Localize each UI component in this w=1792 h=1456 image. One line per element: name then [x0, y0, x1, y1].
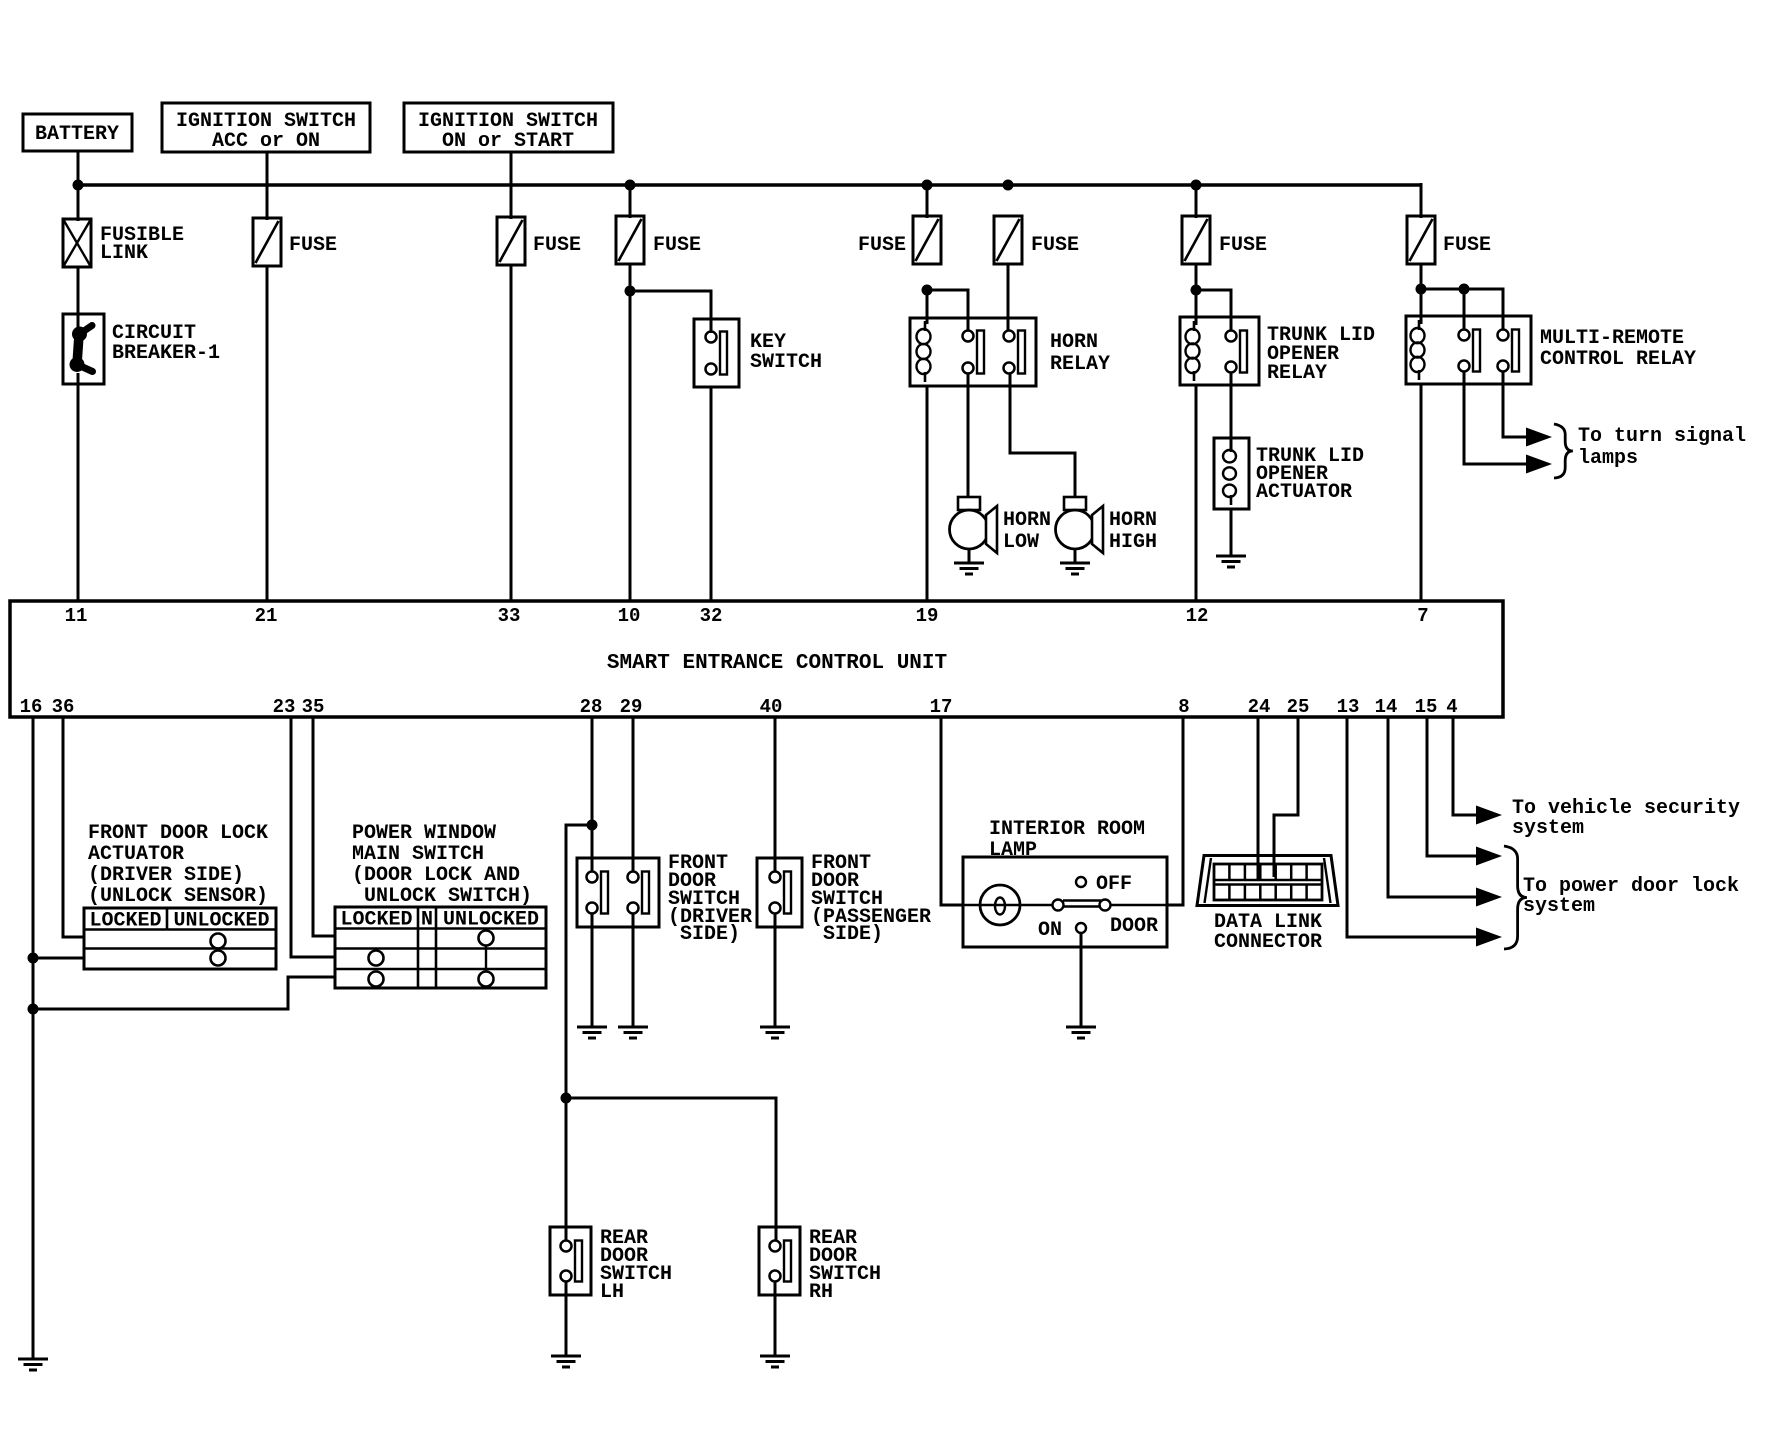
- horn relay box: [910, 318, 1036, 386]
- front door switch passenger contact: [770, 872, 781, 883]
- svg-text:25: 25: [1287, 696, 1310, 718]
- svg-text:RH: RH: [809, 1281, 833, 1304]
- svg-text:32: 32: [700, 605, 723, 627]
- wire junction to horn relay contact 1: [927, 290, 968, 331]
- svg-text:FUSE: FUSE: [653, 234, 701, 257]
- horn relay contact 2: [1004, 331, 1015, 342]
- fuse F-HORN: [994, 216, 1022, 264]
- junction pin28 rear-door branch: [587, 820, 598, 831]
- front door lock actuator table: [84, 908, 276, 969]
- junction fuse12 branch: [1191, 285, 1202, 296]
- wire to rear door switch LH: [565, 1098, 568, 1241]
- svg-text:8: 8: [1178, 696, 1189, 718]
- wire multi-remote coil to pin 7: [1420, 384, 1423, 601]
- svg-text:(DRIVER SIDE): (DRIVER SIDE): [88, 864, 244, 887]
- rear door switch LH contact: [561, 1241, 572, 1252]
- svg-text:10: 10: [618, 605, 641, 627]
- wire branch to rear door switches: [566, 825, 592, 1098]
- horn relay contact 1: [963, 331, 974, 342]
- rear door switch LH box: [550, 1227, 591, 1295]
- rear door switch RH box: [759, 1227, 800, 1295]
- ground rear door switch LH: [565, 1281, 568, 1356]
- svg-text:ACC or ON: ACC or ON: [212, 130, 320, 153]
- wire pin 29 to front door switch driver: [632, 717, 635, 872]
- svg-text:21: 21: [255, 605, 278, 627]
- wire pin 36 to actuator table row1: [63, 717, 85, 937]
- svg-text:OFF: OFF: [1096, 873, 1132, 896]
- svg-text:FUSE: FUSE: [1031, 234, 1079, 257]
- svg-text:MAIN SWITCH: MAIN SWITCH: [352, 843, 484, 866]
- svg-text:POWER WINDOW: POWER WINDOW: [352, 822, 496, 845]
- ignition switch ACC or ON box: [162, 103, 370, 152]
- lamp switch ON position: [1076, 923, 1086, 933]
- wire ON or START to fuse: [510, 152, 513, 219]
- wire pin 16 down to ground: [32, 717, 35, 1359]
- wire junction to actuator table row2: [33, 957, 85, 960]
- svg-text:36: 36: [52, 696, 75, 718]
- interior room lamp box: [963, 857, 1167, 947]
- wire to rear door switch RH: [566, 1098, 776, 1241]
- wire bus to fuse: [629, 185, 632, 218]
- svg-text:SIDE): SIDE): [680, 923, 740, 946]
- junction pin16 bottom link: [28, 1004, 39, 1015]
- svg-text:BATTERY: BATTERY: [35, 123, 119, 146]
- data link connector body: [1197, 856, 1338, 906]
- svg-text:(DOOR LOCK AND: (DOOR LOCK AND: [352, 864, 520, 887]
- main battery bus: [78, 183, 1421, 187]
- junction bus at fuse 19: [922, 180, 933, 191]
- wire contact1 to horn low: [967, 373, 970, 498]
- ground front door switch driver contact2: [632, 913, 635, 1027]
- svg-text:LOCKED: LOCKED: [340, 909, 412, 932]
- svg-text:HORN: HORN: [1109, 509, 1157, 532]
- multi-remote relay coil: [1411, 328, 1425, 343]
- svg-text:FUSE: FUSE: [533, 234, 581, 257]
- ground horn high: [1074, 549, 1077, 563]
- trunk lid opener actuator: [1214, 438, 1249, 509]
- wire trunk relay contact to actuator: [1230, 372, 1233, 450]
- wire pin 23 to PW table row2: [291, 717, 336, 957]
- svg-text:17: 17: [930, 696, 953, 718]
- wire branch to key switch: [630, 291, 711, 333]
- ground interior lamp ON: [1080, 933, 1083, 1027]
- svg-text:N: N: [421, 909, 433, 932]
- brace power door lock: [1504, 846, 1527, 949]
- junction bus at fuse 12: [1191, 180, 1202, 191]
- svg-text:7: 7: [1417, 605, 1428, 627]
- wire pin 35 to PW table row1: [313, 717, 336, 936]
- svg-text:FRONT DOOR LOCK: FRONT DOOR LOCK: [88, 822, 268, 845]
- svg-text:SWITCH: SWITCH: [750, 351, 822, 374]
- circuit breaker CB-1: [63, 314, 104, 384]
- trunk relay coil: [1186, 329, 1200, 344]
- key switch: [694, 319, 739, 387]
- junction multi-remote coil: [1416, 284, 1427, 295]
- svg-text:To turn signal: To turn signal: [1578, 425, 1746, 448]
- svg-text:RELAY: RELAY: [1267, 362, 1327, 385]
- svg-text:16: 16: [20, 696, 43, 718]
- trunk relay contact: [1226, 331, 1237, 342]
- junction pin16 to actuator row2: [28, 953, 39, 964]
- svg-text:HORN: HORN: [1003, 509, 1051, 532]
- svg-text:lamps: lamps: [1578, 447, 1638, 470]
- wire horn relay coil to pin 19: [926, 386, 929, 601]
- lamp switch: [1053, 900, 1064, 911]
- svg-text:40: 40: [760, 696, 783, 718]
- svg-text:FUSE: FUSE: [1219, 234, 1267, 257]
- ground pin 16 wire: [18, 1358, 48, 1361]
- svg-text:CONNECTOR: CONNECTOR: [1214, 931, 1322, 954]
- fuse F-19: [913, 216, 941, 264]
- wire fuse7 down: [1420, 264, 1423, 324]
- svg-text:system: system: [1512, 817, 1584, 840]
- wire PW table row3 to pin16 wire: [33, 977, 336, 1009]
- wire junction to trunk relay contact: [1196, 290, 1231, 331]
- svg-text:4: 4: [1446, 696, 1457, 718]
- svg-text:ACTUATOR: ACTUATOR: [1256, 481, 1352, 504]
- svg-text:(UNLOCK SENSOR): (UNLOCK SENSOR): [88, 885, 268, 908]
- svg-text:DOOR: DOOR: [1110, 915, 1158, 938]
- fuse F-IGN: [497, 217, 525, 265]
- wire junction to contacts: [1421, 289, 1503, 330]
- wire ACC to fuse: [266, 152, 269, 220]
- svg-text:SMART ENTRANCE CONTROL UNIT: SMART ENTRANCE CONTROL UNIT: [607, 652, 947, 675]
- wire pin 40 to front door switch passenger: [774, 717, 777, 872]
- svg-text:FUSE: FUSE: [1443, 234, 1491, 257]
- svg-text:11: 11: [65, 605, 88, 627]
- junction fuse19 branch: [922, 285, 933, 296]
- lamp switch OFF position: [1076, 877, 1086, 887]
- junction rear door switches: [561, 1093, 572, 1104]
- multi-remote relay contact 2: [1498, 330, 1509, 341]
- wire horn fuse to contact 2: [1007, 264, 1010, 331]
- svg-text:ON or START: ON or START: [442, 130, 574, 153]
- wire fuse to pin 21: [266, 266, 269, 601]
- lamp bulb: [963, 904, 1053, 907]
- PW switch unlocked contacts: [479, 931, 494, 946]
- trunk lid opener relay box: [1180, 317, 1259, 385]
- wire pin 4 to vehicle security arrow: [1453, 717, 1478, 815]
- wire key switch to pin 32: [710, 387, 713, 601]
- svg-text:23: 23: [273, 696, 296, 718]
- horn low symbol: [958, 497, 980, 510]
- svg-text:LINK: LINK: [100, 242, 148, 265]
- front door switch passenger box: [757, 858, 802, 927]
- svg-text:RELAY: RELAY: [1050, 353, 1110, 376]
- junction multi-remote contact 1: [1459, 284, 1470, 295]
- svg-text:system: system: [1523, 895, 1595, 918]
- wire fuse to trunk relay: [1195, 264, 1198, 325]
- wire pin 17 to interior lamp: [941, 717, 963, 905]
- fuse F-12: [1182, 216, 1210, 264]
- rear door switch RH contact: [770, 1241, 781, 1252]
- ground trunk actuator: [1230, 509, 1233, 556]
- battery box: [23, 114, 132, 151]
- wire pin 13 to power door lock arrow 3: [1347, 717, 1478, 937]
- ground front door switch passenger: [774, 913, 777, 1027]
- wire pin 15 to power door lock arrow 1: [1427, 717, 1478, 856]
- front door switch driver contact 1: [587, 872, 598, 883]
- svg-text:HIGH: HIGH: [1109, 531, 1157, 554]
- svg-text:INTERIOR ROOM: INTERIOR ROOM: [989, 818, 1145, 841]
- svg-text:MULTI-REMOTE: MULTI-REMOTE: [1540, 327, 1684, 350]
- fuse F-7: [1407, 216, 1435, 264]
- ground front door switch driver contact1: [591, 913, 594, 1027]
- wire contact2 to horn high: [1010, 373, 1075, 498]
- svg-text:19: 19: [916, 605, 939, 627]
- svg-text:CONTROL RELAY: CONTROL RELAY: [1540, 348, 1696, 371]
- wire contact2 to turn signal arrow 1: [1503, 372, 1528, 437]
- wire bus to fuse 19: [926, 185, 929, 218]
- actuator table unlock contacts: [211, 934, 226, 949]
- horn relay coil: [917, 329, 931, 344]
- svg-text:15: 15: [1415, 696, 1438, 718]
- fuse F-10: [616, 216, 644, 264]
- ignition switch ON or START box: [404, 103, 613, 152]
- fuse F-ACC: [253, 218, 281, 266]
- wire junction to horn relay coil: [926, 290, 929, 324]
- svg-text:12: 12: [1186, 605, 1209, 627]
- PW switch locked contacts: [369, 951, 384, 966]
- junction bus at horn fuse: [1003, 180, 1014, 191]
- wire pin 14 to power door lock arrow 2: [1388, 717, 1478, 897]
- svg-text:UNLOCK SWITCH): UNLOCK SWITCH): [364, 885, 532, 908]
- bus corner to fuse 7: [1420, 183, 1423, 218]
- power window main switch table: [335, 907, 546, 988]
- multi-remote control relay box: [1406, 316, 1531, 384]
- svg-text:FUSE: FUSE: [858, 234, 906, 257]
- svg-text:SIDE): SIDE): [823, 923, 883, 946]
- multi-remote relay contact 1: [1459, 330, 1470, 341]
- svg-text:ON: ON: [1038, 919, 1062, 942]
- junction bus at battery: [73, 180, 84, 191]
- wire circuit breaker to pin 11: [77, 384, 80, 601]
- svg-text:UNLOCKED: UNLOCKED: [443, 909, 539, 932]
- wire pin 25 to data link connector: [1274, 717, 1298, 877]
- junction bus at fuse 10: [625, 180, 636, 191]
- front door switch driver contact 2: [628, 872, 639, 883]
- svg-text:14: 14: [1375, 696, 1398, 718]
- svg-text:28: 28: [580, 696, 603, 718]
- wire fuse to pin 33: [510, 265, 513, 601]
- svg-text:33: 33: [498, 605, 521, 627]
- fusible link: [63, 219, 91, 267]
- junction fuse10 / key switch branch: [625, 286, 636, 297]
- svg-text:ACTUATOR: ACTUATOR: [88, 843, 184, 866]
- svg-text:35: 35: [302, 696, 325, 718]
- wire trunk relay coil to pin 12: [1195, 385, 1198, 601]
- svg-text:UNLOCKED: UNLOCKED: [173, 910, 269, 933]
- wire fuse to pin 10: [629, 264, 632, 601]
- wire pin 24 to data link connector: [1257, 717, 1260, 879]
- svg-text:13: 13: [1337, 696, 1360, 718]
- wire pin 28 to front door switch driver: [591, 717, 594, 872]
- brace turn signal: [1554, 424, 1573, 478]
- ground horn low: [968, 549, 971, 563]
- svg-text:LH: LH: [600, 1281, 624, 1304]
- wire bus to fuse 12: [1195, 185, 1198, 218]
- horn high symbol: [1064, 497, 1086, 510]
- ground rear door switch RH: [774, 1281, 777, 1356]
- svg-text:BREAKER-1: BREAKER-1: [112, 342, 220, 365]
- wire lamp to pin 8: [1167, 717, 1183, 905]
- wire battery to bus: [77, 151, 80, 221]
- svg-text:HORN: HORN: [1050, 331, 1098, 354]
- wire fusible link to circuit breaker: [77, 267, 80, 334]
- svg-text:29: 29: [620, 696, 643, 718]
- svg-text:LAMP: LAMP: [989, 839, 1037, 862]
- svg-text:FUSE: FUSE: [289, 234, 337, 257]
- front door switch driver box: [577, 858, 659, 927]
- smart entrance control unit box: [10, 601, 1503, 717]
- svg-text:24: 24: [1248, 696, 1271, 718]
- svg-text:LOW: LOW: [1003, 531, 1039, 554]
- wire contact1 to turn signal arrow 2: [1464, 372, 1528, 464]
- svg-text:LOCKED: LOCKED: [89, 910, 161, 933]
